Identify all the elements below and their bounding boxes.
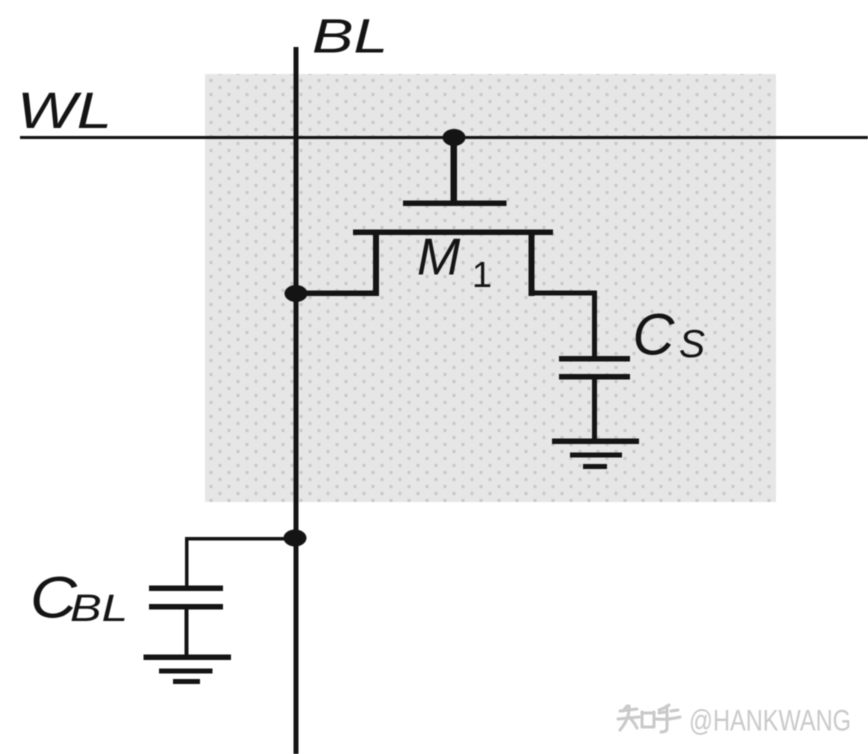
transistor M1 drain leg <box>529 230 535 297</box>
wire CBL tap <box>185 537 295 586</box>
wire WL (word line) <box>20 136 868 139</box>
transistor M1 channel bar <box>353 230 553 236</box>
svg-text:@HANKWANG: @HANKWANG <box>689 705 851 738</box>
svg-text:1: 1 <box>472 254 492 295</box>
wire BL (bit line) <box>294 47 299 754</box>
label WL <box>17 82 112 139</box>
wire CBL to ground <box>185 609 189 656</box>
watermark handle text <box>689 705 851 738</box>
label CBL <box>30 566 128 631</box>
node source junction on BL <box>285 285 308 302</box>
svg-text:BL: BL <box>70 588 128 630</box>
capacitor CBL top plate <box>149 586 223 592</box>
wire CS to ground <box>592 378 597 441</box>
svg-text:M: M <box>417 229 461 287</box>
label CS <box>633 303 706 368</box>
capacitor CS bottom plate <box>559 374 630 380</box>
watermark zhihu glyphs <box>618 705 680 732</box>
transistor M1 source leg <box>373 230 379 297</box>
cell highlight region <box>205 74 776 502</box>
capacitor CS top plate <box>559 356 630 362</box>
node gate tap on WL <box>443 129 466 146</box>
svg-text:BL: BL <box>312 11 388 64</box>
ground (CS) <box>552 439 639 470</box>
capacitor CBL bottom plate <box>149 604 223 610</box>
wire gate stub <box>451 137 458 203</box>
svg-text:C: C <box>633 303 676 368</box>
ground (CBL) <box>144 655 232 685</box>
wire source arm to BL <box>296 291 379 297</box>
label BL <box>312 11 388 64</box>
svg-text:WL: WL <box>17 82 112 139</box>
node CBL tap on BL <box>284 530 307 547</box>
transistor M1 gate plate <box>403 201 507 207</box>
wire drain arm <box>529 291 598 360</box>
label M1 <box>417 229 492 296</box>
svg-text:S: S <box>679 323 705 366</box>
